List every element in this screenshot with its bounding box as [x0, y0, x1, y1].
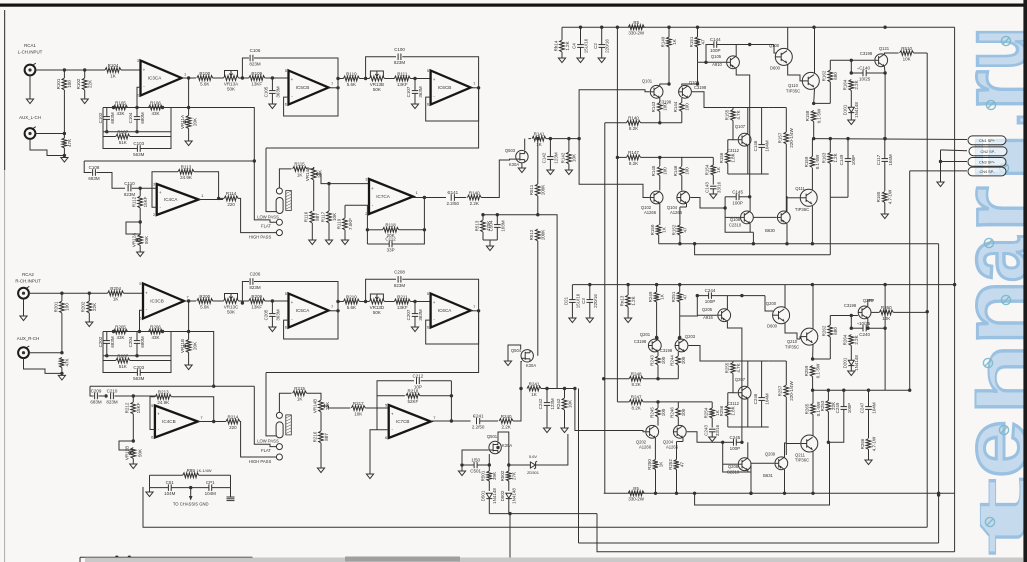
wire q103 base — [692, 92, 728, 108]
node — [811, 357, 814, 360]
resistor R5b 330-2W — [628, 486, 645, 502]
wire q104 base — [690, 198, 725, 209]
wire cn4 feed — [910, 170, 967, 172]
capacitor C203 — [103, 361, 171, 382]
svg-text:R248: R248 — [631, 372, 642, 377]
wire — [785, 197, 788, 212]
wire cn1 feed — [941, 149, 968, 152]
svg-text:VR14A: VR14A — [305, 167, 310, 181]
ground — [598, 58, 605, 63]
resistor R242 — [556, 389, 572, 429]
svg-text:R159: R159 — [804, 156, 809, 167]
node — [187, 299, 190, 302]
node — [536, 213, 539, 216]
resistor R101 — [56, 70, 72, 134]
svg-text:0.1-5W: 0.1-5W — [815, 154, 820, 169]
wire out — [471, 294, 479, 311]
svg-text:HIGH PASS: HIGH PASS — [249, 459, 272, 464]
svg-text:IC6CA: IC6CA — [438, 308, 452, 313]
resistor R501 — [481, 465, 497, 491]
svg-text:R157: R157 — [778, 132, 783, 143]
svg-text:D600: D600 — [770, 66, 781, 71]
svg-text:5.6K: 5.6K — [347, 305, 356, 310]
node — [654, 492, 657, 495]
svg-text:R241: R241 — [529, 381, 540, 386]
ground — [881, 214, 888, 219]
svg-text:C51: C51 — [166, 480, 175, 485]
svg-text:R162: R162 — [822, 70, 827, 81]
node — [678, 283, 681, 286]
svg-text:r: r — [943, 186, 1027, 233]
resistor Rh14 — [553, 27, 569, 58]
resistor R001b 47K — [60, 358, 70, 374]
switch label FLAT — [261, 448, 271, 453]
svg-text:FLAT: FLAT — [261, 224, 271, 229]
svg-text:C3198: C3198 — [694, 85, 707, 90]
node — [783, 492, 786, 495]
node — [545, 387, 548, 390]
wire mid rail B — [616, 27, 618, 402]
resistor R162 — [822, 60, 838, 103]
border top — [0, 4, 1025, 7]
svg-text:104M: 104M — [872, 402, 877, 414]
node — [939, 160, 942, 163]
node — [667, 82, 670, 85]
wire — [768, 173, 770, 175]
svg-text:R215: R215 — [294, 386, 305, 391]
svg-text:33P: 33P — [387, 248, 395, 253]
wire — [524, 139, 526, 151]
wire — [813, 89, 816, 104]
svg-text:R213: R213 — [158, 390, 169, 395]
svg-text:100: 100 — [65, 303, 70, 311]
node — [656, 400, 659, 403]
wire — [307, 393, 321, 399]
potentiometer VR13D — [369, 294, 394, 315]
ground — [518, 168, 525, 173]
wire fb to col — [189, 332, 214, 387]
svg-text:C103: C103 — [133, 141, 144, 146]
ground — [341, 240, 348, 245]
ground — [710, 194, 717, 199]
wire — [728, 139, 733, 141]
ground — [865, 460, 872, 465]
node — [271, 76, 274, 79]
svg-text:100: 100 — [681, 356, 686, 364]
svg-text:50K: 50K — [373, 87, 381, 92]
node — [161, 106, 164, 109]
svg-text:R513: R513 — [474, 220, 479, 231]
svg-text:5.6K: 5.6K — [200, 304, 209, 309]
node — [481, 213, 484, 216]
wire — [801, 80, 803, 82]
svg-text:Q503: Q503 — [505, 148, 516, 153]
resistor R252 — [668, 442, 684, 494]
node — [63, 154, 66, 157]
svg-text:Q101: Q101 — [642, 79, 653, 84]
capacitor C104 — [128, 108, 145, 132]
resistor R256 — [719, 393, 735, 427]
svg-text:R102: R102 — [76, 78, 81, 89]
ground — [269, 327, 276, 332]
svg-text:R260: R260 — [881, 305, 892, 310]
svg-text:CN4 SP-: CN4 SP- — [980, 170, 996, 174]
svg-text:IC7CB: IC7CB — [396, 419, 410, 424]
svg-text:24.9K: 24.9K — [180, 175, 192, 180]
svg-text:R100: R100 — [199, 71, 210, 76]
resistor R106 — [149, 100, 163, 116]
svg-text:100: 100 — [685, 103, 690, 111]
wire lowpass route — [266, 311, 479, 373]
svg-text:R140: R140 — [628, 116, 639, 121]
wire — [787, 27, 789, 50]
wire wiper out — [319, 174, 369, 184]
node — [811, 492, 814, 495]
svg-text:330-2W: 330-2W — [628, 31, 645, 36]
capacitor C208 loop — [366, 270, 479, 302]
transistor Q207 — [727, 377, 751, 406]
svg-text:51K: 51K — [119, 140, 127, 145]
resistor R214 — [226, 414, 240, 430]
wire — [784, 285, 786, 308]
node — [883, 26, 886, 29]
svg-text:C245: C245 — [730, 435, 741, 440]
capacitor C245 — [723, 435, 742, 451]
svg-text:R154: R154 — [705, 164, 710, 175]
wire output — [182, 77, 197, 79]
pot loop VR12A — [126, 222, 140, 234]
svg-text:10/25: 10/25 — [859, 77, 871, 82]
node — [135, 106, 138, 109]
wire — [658, 402, 678, 408]
svg-text:R117: R117 — [320, 211, 325, 222]
resistor R217 — [351, 401, 365, 417]
node — [811, 389, 814, 392]
node — [866, 327, 869, 330]
node — [696, 26, 699, 29]
wire — [657, 338, 658, 340]
node — [937, 493, 940, 496]
ground — [486, 246, 493, 251]
svg-text:VR14B: VR14B — [312, 399, 317, 413]
svg-text:C249: C249 — [835, 402, 840, 413]
wire — [830, 315, 858, 317]
ground — [309, 240, 316, 245]
svg-text:47: 47 — [683, 227, 688, 233]
svg-text:C203: C203 — [133, 365, 144, 370]
node — [785, 242, 788, 245]
wire — [410, 301, 430, 303]
node — [867, 389, 870, 392]
diode D101 — [843, 102, 859, 120]
capacitor C117 — [876, 139, 893, 191]
node — [812, 26, 815, 29]
node — [423, 196, 426, 199]
node — [189, 486, 192, 489]
svg-text:1K: 1K — [536, 142, 542, 147]
svg-text:2.2K: 2.2K — [501, 424, 510, 429]
node — [829, 137, 832, 140]
node — [450, 419, 453, 422]
wire — [29, 352, 62, 354]
resistor R202 — [81, 293, 97, 322]
potentiometer VR13C — [213, 294, 249, 315]
transistor Q108 — [729, 211, 753, 228]
wire down to loopB — [578, 389, 580, 544]
svg-text:R113: R113 — [181, 165, 192, 170]
svg-text:R164: R164 — [843, 79, 848, 90]
svg-text:TO CHASSIS GND: TO CHASSIS GND — [173, 502, 209, 507]
wire — [867, 319, 869, 329]
svg-text:2.2K: 2.2K — [470, 201, 479, 206]
wire — [884, 53, 898, 54]
svg-text:R259: R259 — [804, 365, 809, 376]
node — [271, 299, 274, 302]
potentiometer VR14A — [305, 167, 323, 181]
svg-text:IC3CA: IC3CA — [148, 76, 162, 81]
wire — [765, 296, 773, 311]
svg-text:10K: 10K — [882, 316, 890, 321]
wire — [723, 463, 738, 465]
svg-text:IC4CB: IC4CB — [162, 419, 176, 424]
wire from fb col — [254, 386, 276, 446]
svg-text:2.2/50: 2.2/50 — [472, 425, 485, 430]
capacitor CP1 — [191, 480, 231, 496]
wire — [884, 285, 886, 329]
svg-text:100: 100 — [67, 80, 72, 88]
wire — [784, 470, 786, 494]
wire bottom loop A — [143, 487, 927, 527]
resistor R154 — [705, 157, 721, 184]
watermark tehnari.ru — [943, 27, 1027, 556]
node — [752, 242, 755, 245]
resistor R102 — [76, 70, 92, 99]
ground — [20, 316, 27, 321]
wire — [213, 300, 223, 302]
svg-text:R257: R257 — [778, 385, 783, 396]
node — [678, 336, 681, 339]
capacitor C108 — [84, 161, 125, 188]
node — [850, 71, 853, 74]
svg-text:R502: R502 — [500, 470, 505, 481]
resistor R100 — [197, 71, 213, 87]
resistor R264 — [843, 316, 859, 358]
svg-text:A1266: A1266 — [639, 445, 652, 450]
op-amp IC6CB — [427, 68, 476, 107]
svg-text:R242: R242 — [556, 398, 561, 409]
node — [567, 137, 570, 140]
resistor R251 — [671, 285, 687, 316]
node — [811, 242, 814, 245]
ground — [185, 365, 192, 370]
wire — [883, 67, 886, 74]
resistor R99 — [183, 468, 212, 478]
node — [723, 206, 726, 209]
wire — [812, 344, 814, 359]
node — [253, 159, 256, 162]
svg-text:2.2K: 2.2K — [854, 80, 859, 89]
resistor R513 — [474, 215, 490, 240]
wire out — [431, 420, 471, 422]
svg-text:1.8K: 1.8K — [731, 406, 736, 415]
resistor R147 8.2K — [617, 150, 659, 166]
node — [135, 130, 138, 133]
svg-text:CN3 SP+: CN3 SP+ — [979, 161, 996, 165]
capacitor C100 loop — [366, 47, 479, 79]
resistor R201 — [53, 293, 69, 353]
svg-text:220: 220 — [229, 425, 237, 430]
resistor R150 — [650, 224, 666, 244]
svg-text:+: + — [857, 322, 859, 326]
capacitor C249 — [828, 390, 851, 442]
wire — [786, 443, 800, 445]
svg-text:C117: C117 — [876, 154, 881, 165]
svg-text:R141: R141 — [534, 131, 545, 136]
svg-text:CP1: CP1 — [206, 480, 215, 485]
svg-text:R156: R156 — [719, 152, 724, 163]
svg-text:823M: 823M — [394, 283, 406, 288]
op-amp IC5CB — [285, 68, 334, 107]
node — [327, 182, 330, 185]
svg-text:20K: 20K — [193, 342, 198, 350]
resistor R140 8.2K — [605, 116, 682, 132]
svg-text:+: + — [857, 67, 859, 71]
svg-text:R155: R155 — [724, 109, 729, 120]
svg-text:R115: R115 — [294, 162, 305, 167]
svg-text:R152: R152 — [671, 224, 676, 235]
resistor R213 — [155, 390, 171, 406]
wire — [508, 345, 521, 361]
node — [626, 283, 629, 286]
node — [217, 197, 220, 200]
svg-text:.: . — [980, 114, 1027, 126]
svg-text:1K: 1K — [659, 294, 664, 300]
svg-text:1K: 1K — [110, 73, 116, 78]
wire emitter link — [814, 102, 831, 104]
capacitor C210 — [106, 389, 133, 405]
svg-text:823M: 823M — [249, 61, 261, 66]
wire out — [199, 199, 223, 201]
wire — [749, 197, 751, 211]
svg-text:i: i — [963, 124, 1027, 190]
capacitor C106 loop — [242, 48, 338, 78]
capacitor C105 — [264, 78, 281, 104]
svg-text:10K: 10K — [572, 154, 577, 162]
capacitor C112 — [367, 198, 424, 253]
wire vert x926 — [926, 53, 928, 527]
svg-text:50K: 50K — [137, 449, 142, 457]
resistor R163 — [822, 139, 838, 198]
svg-text:e: e — [943, 420, 1027, 478]
wire vas bottom — [728, 426, 769, 428]
wire row2 — [103, 131, 171, 133]
wire — [454, 197, 466, 199]
svg-text:C3198: C3198 — [634, 339, 647, 344]
transistor Q105 A910 — [711, 54, 740, 69]
wire — [747, 442, 749, 458]
svg-text:100: 100 — [661, 356, 666, 364]
svg-text:43K: 43K — [151, 111, 159, 116]
capacitor C110 — [124, 181, 157, 197]
wire — [307, 167, 314, 169]
node — [496, 446, 499, 449]
svg-text:C149: C149 — [839, 154, 844, 165]
resistor R254 — [704, 402, 720, 428]
node — [812, 102, 815, 105]
svg-text:C3: C3 — [581, 298, 586, 304]
svg-text:R158: R158 — [805, 110, 810, 121]
svg-text:C104: C104 — [128, 112, 133, 123]
wire — [657, 352, 659, 356]
resistor R209 — [249, 294, 265, 310]
diode D201 — [843, 355, 859, 371]
wire R output rail — [813, 389, 910, 391]
node — [212, 420, 215, 423]
ground — [26, 99, 33, 104]
wire q102 base — [579, 139, 650, 198]
node — [104, 394, 107, 397]
capacitor C244 — [697, 288, 765, 315]
resistor R502 — [500, 443, 516, 491]
node — [696, 294, 699, 297]
resistor R118 — [367, 223, 424, 239]
svg-text:n: n — [944, 280, 1027, 345]
resistor R248 8.2K — [604, 372, 679, 388]
resistor R211 — [394, 294, 410, 310]
switch label HIGH PASS — [249, 459, 272, 464]
node — [450, 394, 453, 397]
svg-text:R119: R119 — [336, 218, 341, 229]
node — [536, 137, 539, 140]
resistor R117 — [320, 184, 336, 240]
svg-text:220/16: 220/16 — [605, 39, 610, 53]
svg-text:Q207: Q207 — [735, 377, 746, 382]
wire — [830, 59, 874, 61]
svg-text:R247: R247 — [631, 395, 642, 400]
svg-text:R147: R147 — [628, 150, 639, 155]
wire — [829, 197, 831, 254]
zener ZD501 — [509, 434, 568, 475]
node — [138, 330, 141, 333]
wire out — [198, 421, 226, 423]
node — [105, 354, 108, 357]
svg-text:TIP35C: TIP35C — [786, 89, 800, 94]
svg-text:C210: C210 — [107, 389, 118, 394]
wire — [509, 558, 511, 562]
ground — [543, 428, 550, 433]
switch contact HIGH PASS — [276, 230, 282, 236]
wire pole up — [279, 169, 291, 188]
border left — [4, 10, 5, 562]
svg-text:C3198: C3198 — [860, 51, 873, 56]
wire — [677, 352, 679, 356]
wire — [828, 441, 829, 443]
transistor Q211 TIP36C — [795, 435, 818, 463]
resistor R109 — [249, 71, 265, 87]
node — [241, 76, 244, 79]
wire — [213, 77, 223, 79]
svg-text:100P: 100P — [732, 200, 743, 205]
transistor Q203 — [660, 334, 696, 353]
wire emitter row — [659, 243, 939, 245]
ground — [130, 464, 137, 469]
switch label FLAT — [261, 224, 271, 229]
svg-text:1.2K: 1.2K — [631, 296, 636, 305]
resistor R113 — [178, 165, 194, 181]
capacitor C209 — [90, 386, 104, 404]
node — [187, 106, 190, 109]
svg-text:R150: R150 — [650, 224, 655, 235]
